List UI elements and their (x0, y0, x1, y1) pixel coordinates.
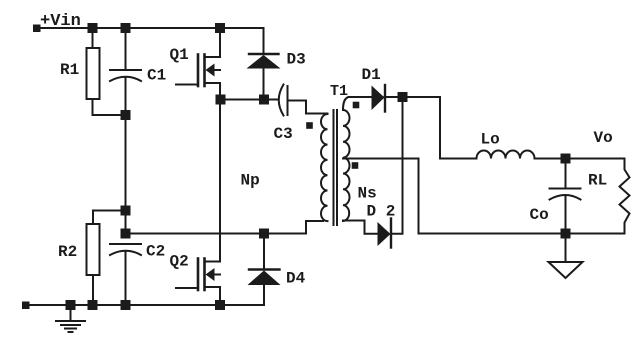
wire C2 bottom lead (125, 251, 127, 305)
diode D4 (248, 234, 281, 306)
svg-text:Vo: Vo (594, 129, 613, 147)
node junction top rail Q1 drain (215, 23, 225, 33)
svg-text:Co: Co (530, 206, 549, 224)
node junction Q2 source (215, 300, 225, 310)
inductor Lo (477, 151, 535, 159)
node junction Vo (561, 154, 571, 164)
node bottom-left terminal (22, 302, 30, 310)
transistor Q2 (176, 100, 220, 306)
ground input (56, 305, 85, 332)
wire Co top lead (565, 159, 567, 189)
svg-text:Q1: Q1 (170, 46, 189, 64)
wire C1 bottom lead / divider mid vertical (125, 77, 127, 234)
node phase dot primary (306, 122, 313, 129)
node junction D3 anode (259, 95, 269, 105)
node junction C2 bottom (121, 300, 131, 310)
capacitor Co (550, 189, 581, 200)
wire secondary top to D1 (349, 96, 372, 98)
svg-text:D3: D3 (287, 51, 306, 69)
wire Lo to Vo node (535, 158, 566, 160)
wire output bottom rail (419, 233, 625, 235)
node junction R1 bottom (121, 110, 131, 120)
svg-text:D4: D4 (286, 270, 306, 288)
node junction D4 top (259, 229, 269, 239)
svg-text:C2: C2 (146, 243, 165, 261)
svg-text:Q2: Q2 (170, 253, 189, 271)
svg-text:Lo: Lo (481, 131, 500, 149)
capacitor C3 (279, 85, 323, 116)
wire bottom rail (29, 304, 264, 306)
svg-text:RL: RL (588, 172, 607, 190)
diode D1 (372, 85, 386, 112)
wire R2 bottom lead (92, 275, 94, 305)
node junction D1 cathode (398, 92, 408, 102)
wire mid rail to transformer primary bottom (126, 221, 324, 234)
ground output (549, 234, 583, 279)
svg-text:C1: C1 (147, 67, 166, 85)
diode D3 (247, 28, 281, 100)
resistor RL zigzag (620, 159, 630, 234)
node junction output bottom (561, 229, 571, 239)
transformer core (333, 110, 335, 225)
node junction top rail R1 (88, 23, 98, 33)
node junction ground (66, 300, 76, 310)
resistor R2 (87, 224, 100, 275)
node junction R2 top (121, 206, 131, 216)
svg-text:R1: R1 (60, 61, 79, 79)
resistor R1 (87, 48, 100, 99)
wire Co bottom lead (565, 196, 567, 234)
node +Vin terminal (33, 25, 41, 33)
wire C1 top lead (125, 28, 127, 70)
wire R1 top lead (92, 28, 94, 48)
capacitor C2 (110, 244, 141, 255)
svg-text:Np: Np (241, 172, 260, 190)
svg-text:R2: R2 (58, 243, 77, 261)
wire centre tap (343, 159, 419, 234)
wire top rail (40, 27, 264, 29)
node junction C2 top / primary return (121, 229, 131, 239)
transformer T1 primary winding (321, 114, 328, 221)
svg-text:T1: T1 (330, 83, 348, 100)
svg-text:Ns: Ns (358, 185, 377, 203)
node junction top rail C1 (121, 23, 131, 33)
svg-text:C3: C3 (274, 125, 293, 143)
node junction R2 bottom (88, 300, 98, 310)
wire switch node (220, 99, 279, 101)
wire Vo to RL (566, 158, 625, 160)
wire secondary bottom to D2 (343, 221, 378, 234)
wire D1 out to Lo corner (385, 97, 477, 159)
node phase dot secondary top (353, 102, 360, 109)
wire R1 bottom lead (93, 99, 126, 115)
transformer T1 secondary winding (343, 97, 350, 221)
diode D2 (378, 219, 392, 248)
wire primary top entry (321, 113, 328, 115)
transistor Q1 (176, 28, 220, 100)
capacitor C1 (110, 70, 141, 81)
node phase dot secondary mid (352, 162, 359, 169)
wire R2 top jog (93, 211, 126, 225)
svg-text:D1: D1 (362, 66, 381, 84)
node junction Q1 source / Q2 drain (216, 95, 226, 105)
wire D1-D2 cathode vertical (392, 97, 403, 234)
